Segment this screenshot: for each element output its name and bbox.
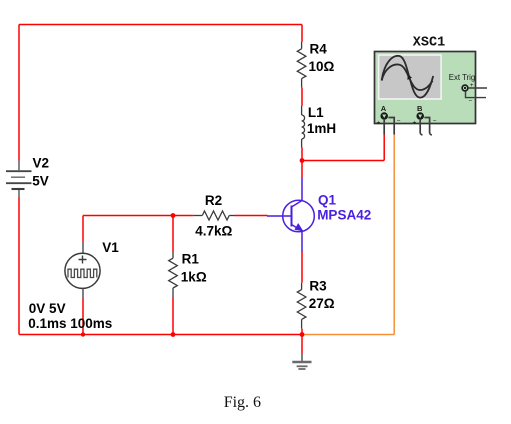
wire left rail lower [18,197,20,335]
ext trig stub wires [466,88,488,98]
oscilloscope XSC1 body [375,52,476,124]
ground [292,354,311,370]
resistor R1 [169,251,178,297]
svg-text:R1: R1 [182,251,200,266]
node junction V1 bottom rail [81,332,85,336]
svg-text:4.7kΩ: 4.7kΩ [195,224,232,239]
channel B minus pin lead [424,118,432,135]
wire R4 top lead segment [301,25,303,43]
wire left rail upper [18,25,20,161]
wire between R4 and L1 [301,88,303,106]
pulse source V1 [65,241,100,299]
channel A minus pin lead [388,118,394,135]
svg-text:27Ω: 27Ω [309,296,335,311]
wire L1 bottom to collector node [301,148,303,179]
wire R2 to base [235,215,268,217]
svg-text:−: − [469,97,473,104]
svg-text:−: − [397,118,401,125]
wire V1 to R2 horizontal [83,215,193,217]
node junction ground / R3 / orange [300,332,305,337]
svg-text:B: B [417,104,423,113]
svg-text:0V 5V: 0V 5V [29,301,66,316]
scope trace arrow marker [408,75,413,81]
svg-text:XSC1: XSC1 [413,35,445,50]
wire node to scope channel A horizontal [302,160,384,162]
scope waveform trace outer [382,56,434,98]
svg-text:1mH: 1mH [307,121,336,136]
channel A plus pin lead [383,120,385,135]
wire scope channel A vertical [383,135,385,161]
transistor Q1 [267,178,314,252]
resistor R4 [297,42,306,88]
wire V1 top vertical [82,216,84,242]
channel B plus pin lead [420,120,422,135]
svg-text:1kΩ: 1kΩ [181,269,207,284]
svg-text:V1: V1 [102,240,119,255]
wire emitter to R3 [301,252,303,283]
resistor R3 [297,283,306,329]
wire ground node down [301,335,303,354]
svg-text:R2: R2 [205,193,222,208]
node junction V1 top / R1 / R2 [171,213,176,218]
ext trig terminal [462,82,474,105]
resistor R2 [193,211,234,220]
svg-text:Fig. 6: Fig. 6 [224,394,261,411]
svg-text:R3: R3 [309,278,327,293]
svg-text:0.1ms 100ms: 0.1ms 100ms [28,316,112,331]
wire top horizontal V2+ to R4 [19,24,302,26]
svg-text:+: + [377,120,381,127]
svg-text:5V: 5V [32,174,49,189]
wire R1 bottom [172,298,174,335]
battery V2 [6,161,32,198]
svg-text:A: A [381,104,387,113]
wire V1 bottom vertical [82,299,84,335]
scope waveform trace inner [382,64,433,90]
svg-text:R4: R4 [310,41,328,56]
wire R1 top [172,216,174,252]
wire orange vertical to scope A minus [393,135,395,335]
node junction R1 bottom rail [171,332,176,337]
svg-text:+: + [413,120,417,127]
svg-text:MPSA42: MPSA42 [317,208,371,223]
node junction L1 / collector / scope [300,158,305,163]
channel B terminal [413,112,437,126]
svg-text:−: − [433,118,437,125]
wire orange horizontal ground to scope [302,334,394,336]
inductor L1 [302,106,305,148]
svg-text:L1: L1 [308,105,324,120]
svg-text:10Ω: 10Ω [309,59,335,74]
svg-text:Q1: Q1 [318,192,337,207]
svg-text:V2: V2 [33,156,50,171]
wire R3 bottom to ground node [301,329,303,335]
wire bottom horizontal rail [19,334,302,336]
channel A terminal [377,112,401,126]
svg-text:Ext Trig: Ext Trig [449,73,475,82]
